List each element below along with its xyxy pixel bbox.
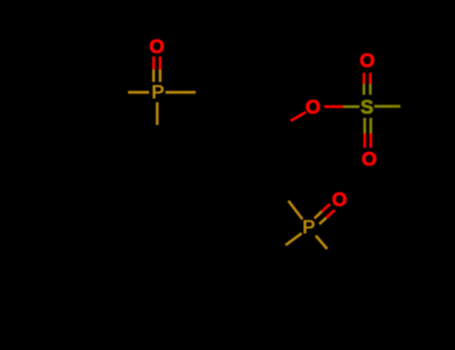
double bond P1=O (left line, O half red): [152, 57, 155, 70]
bond O-S (O half red): [324, 105, 343, 108]
svg-text:O: O: [149, 36, 164, 58]
bond P1-CH3 down: [156, 102, 159, 125]
double bond P2=O (lower line, P half gold): [319, 218, 326, 224]
double bond S=O bottom (left line, S half olive): [363, 118, 366, 134]
bond P1-CH2 right: [165, 91, 195, 94]
atom O ester: [305, 96, 320, 118]
double bond P1=O (right line, P half gold): [159, 70, 162, 83]
double bond S=O top (left line, S half olive): [362, 84, 365, 95]
double bond S=O top (right line, O half red): [369, 73, 372, 84]
double bond P2=O (lower line, O half red): [326, 210, 334, 218]
double bond S=O top (right line, S half olive): [369, 84, 372, 95]
double bond S=O bottom (right line, O half red): [369, 134, 372, 148]
atom O of P1=O: [149, 36, 164, 58]
svg-text:O: O: [305, 96, 320, 118]
double bond P2=O (upper line, P half gold): [314, 211, 322, 218]
svg-text:O: O: [360, 50, 375, 72]
svg-text:O: O: [362, 148, 377, 170]
svg-text:S: S: [360, 97, 373, 119]
svg-text:O: O: [332, 189, 347, 211]
bond P2-CH3 down-right: [316, 236, 328, 249]
double bond P1=O (left line, P half gold): [152, 70, 155, 83]
double bond S=O bottom (left line, O half red): [363, 134, 366, 148]
bond O-S (S half olive): [343, 105, 359, 108]
bond C-O ester (red half): [291, 112, 306, 121]
bond P2-CH3 down-left: [286, 233, 302, 245]
bond S-CH3 right: [374, 105, 400, 108]
atom O of S=O top: [360, 50, 375, 72]
atom P2: [302, 216, 315, 238]
atom O of S=O bottom: [362, 148, 377, 170]
double bond P1=O (right line, O half red): [159, 57, 162, 70]
double bond S=O bottom (right line, S half olive): [369, 118, 372, 134]
atom S: [360, 97, 373, 119]
svg-text:P: P: [151, 82, 164, 104]
bond P2-CH2 up-left: [288, 201, 302, 220]
atom P1: [151, 82, 164, 104]
atom O of P2=O: [332, 189, 347, 211]
bond P1-CH3 left: [128, 91, 149, 94]
double bond P2=O (upper line, O half red): [322, 204, 330, 211]
double bond S=O top (left line, O half red): [362, 73, 365, 84]
svg-text:P: P: [302, 216, 315, 238]
